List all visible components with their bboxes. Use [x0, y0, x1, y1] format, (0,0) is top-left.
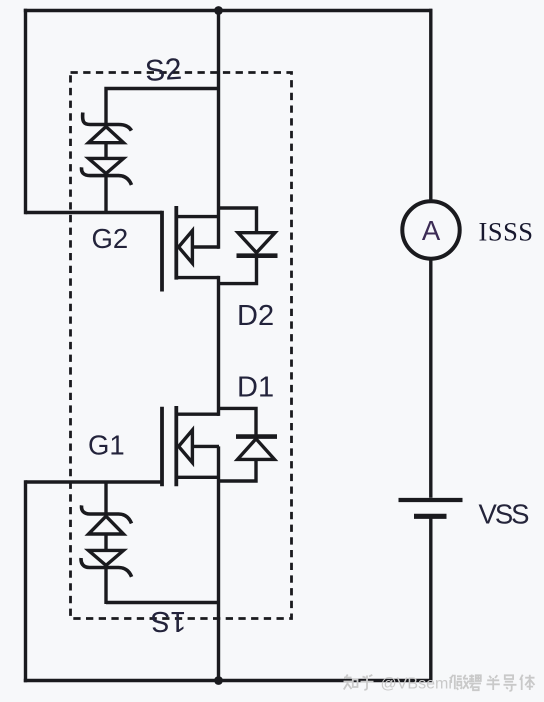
svg-text:1S: 1S — [151, 605, 186, 637]
wire left upper — [24, 9, 27, 214]
wire left lower — [24, 480, 27, 682]
wire G1 — [26, 480, 162, 483]
wire right lower — [429, 518, 432, 680]
transistor Q2 body line — [192, 245, 220, 248]
transistor Q1 drain line — [176, 413, 219, 416]
diode D2 triangle — [238, 233, 275, 253]
wire right middle — [429, 258, 432, 497]
wire main lower — [217, 446, 220, 682]
svg-text:A: A — [422, 215, 441, 246]
diode D1 cathode bar — [236, 434, 277, 439]
dashed box — [71, 73, 292, 619]
svg-text:@VBsemi: @VBsemi — [381, 676, 452, 693]
zener Z1 bar — [83, 113, 132, 131]
wire main middle — [217, 276, 220, 416]
wire zener lower from G1 — [104, 482, 107, 514]
wire zener to G2 — [104, 176, 107, 213]
diode D1 bottom branch — [219, 459, 257, 481]
transistor Q2 source line — [176, 276, 219, 279]
transistor Q2 drain line — [176, 215, 219, 218]
transistor Q1 body line — [192, 445, 220, 448]
watermark — [344, 675, 535, 692]
wire zener to S1 — [104, 568, 107, 605]
transistor Q2 channel bar — [174, 206, 178, 280]
svg-text:D2: D2 — [237, 300, 274, 332]
wire bottom rail — [24, 679, 432, 682]
transistor Q2 body arrow — [179, 231, 193, 264]
zener Z2 bar — [82, 167, 132, 185]
zener Z3 triangle — [89, 516, 124, 534]
zener Z1 triangle — [89, 127, 124, 143]
svg-text:G1: G1 — [88, 430, 125, 461]
battery VSS short plate — [414, 514, 447, 519]
transistor Q1 gate bar — [160, 407, 164, 487]
transistor Q1 body arrow — [179, 430, 193, 463]
wire G2 — [26, 211, 163, 214]
wire S1 — [106, 601, 220, 604]
node top junction — [214, 6, 223, 15]
svg-text:ISSS: ISSS — [479, 217, 534, 247]
zener Z3 bar — [82, 505, 132, 523]
diode D2 cathode bar — [237, 253, 278, 258]
ammeter U1 circle — [402, 201, 459, 258]
battery VSS long plate — [399, 498, 463, 502]
wire main upper — [217, 9, 220, 249]
svg-text:S2: S2 — [144, 53, 183, 88]
svg-text:G2: G2 — [92, 223, 129, 254]
wire top rail — [24, 9, 432, 12]
zener Z4 bar — [81, 558, 132, 577]
diode D2 bottom branch — [219, 256, 257, 284]
transistor Q2 gate bar — [160, 211, 164, 292]
wire right upper — [429, 9, 432, 202]
diode D1 triangle — [238, 439, 275, 460]
transistor Q1 source line — [176, 476, 219, 479]
svg-text:VSS: VSS — [479, 499, 530, 530]
node bottom junction — [214, 676, 223, 685]
zener Z2 triangle — [89, 158, 124, 173]
wire zener mid lower — [104, 534, 107, 550]
transistor Q1 channel bar — [174, 406, 178, 486]
svg-text:D1: D1 — [237, 372, 274, 404]
diode D1 top branch — [219, 408, 257, 436]
wire S2 — [106, 89, 220, 127]
diode D2 top branch — [219, 208, 257, 231]
wire zener mid upper — [104, 143, 107, 159]
zener Z4 triangle — [89, 550, 124, 565]
